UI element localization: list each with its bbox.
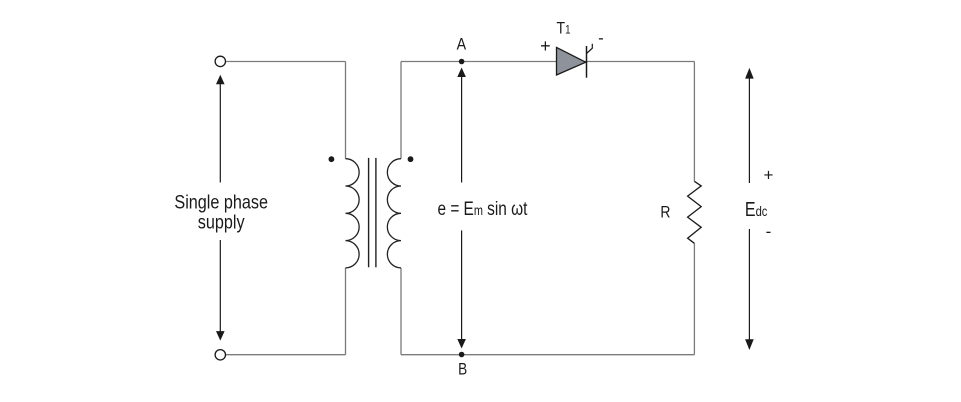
terminal top-left xyxy=(215,56,225,66)
thyristor T1 gate xyxy=(587,44,593,54)
wire bottom-left (terminal to primary) xyxy=(226,354,346,356)
svg-text:supply: supply xyxy=(198,211,245,233)
svg-text:B: B xyxy=(458,360,467,379)
source arrow (double-headed, left) xyxy=(216,75,225,341)
label R xyxy=(660,203,670,222)
svg-text:+: + xyxy=(764,166,774,185)
Edc arrow (double-headed, right) xyxy=(745,68,754,350)
node B xyxy=(459,352,465,358)
svg-text:-: - xyxy=(766,222,772,241)
thyristor T1 triangle xyxy=(557,47,586,75)
svg-text:e = Em sin ωt: e = Em sin ωt xyxy=(438,197,528,219)
transformer core xyxy=(369,158,376,267)
wire bottom rail xyxy=(401,354,694,356)
svg-text:Single phase: Single phase xyxy=(174,191,268,213)
secondary voltage arrow A-B xyxy=(457,68,466,349)
resistor R zigzag xyxy=(688,181,702,243)
svg-text:-: - xyxy=(598,28,604,47)
svg-text:+: + xyxy=(540,36,551,56)
label "Single phase supply" xyxy=(174,191,268,233)
label B xyxy=(458,360,467,379)
label Edc xyxy=(745,198,768,220)
wire right side upper (to resistor) xyxy=(693,62,695,182)
wire right side lower (from resistor) xyxy=(693,243,695,354)
svg-text:A: A xyxy=(457,35,467,53)
wire top-left (terminal to primary) xyxy=(226,61,346,63)
wire right vertical lower (secondary to bottom rail) xyxy=(400,268,402,355)
label e = Em sin wt xyxy=(438,197,528,219)
label T1 xyxy=(557,19,571,37)
transformer primary coil xyxy=(346,159,360,268)
wire left vertical lower (from primary coil) xyxy=(345,268,347,355)
transformer polarity dot (secondary) xyxy=(408,156,414,162)
transformer polarity dot (primary) xyxy=(329,156,335,162)
svg-text:R: R xyxy=(660,203,670,222)
wire top rail (secondary to load) xyxy=(401,61,694,63)
wire left vertical upper (into primary coil) xyxy=(345,62,347,159)
terminal bottom-left xyxy=(215,350,225,360)
wire right vertical upper (secondary to top rail) xyxy=(400,62,402,159)
label A xyxy=(457,35,467,53)
thyristor T1 cathode bar xyxy=(586,46,588,78)
transformer secondary coil xyxy=(387,159,401,268)
node A xyxy=(459,59,465,65)
